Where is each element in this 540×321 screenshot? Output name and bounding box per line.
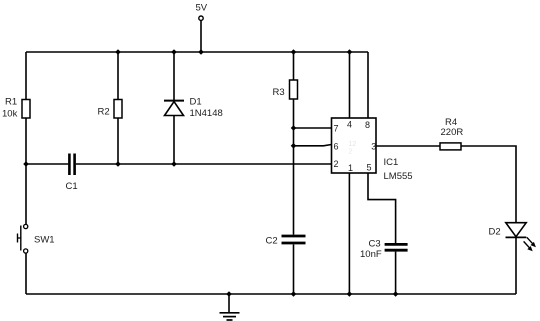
wire left column top (to R1) bbox=[25, 52, 27, 100]
svg-text:C1: C1 bbox=[66, 181, 78, 192]
svg-text:R3: R3 bbox=[273, 87, 285, 98]
node junction D1/top rail bbox=[171, 49, 177, 55]
resistor R2 bbox=[98, 100, 123, 119]
wire C2 bottom bbox=[293, 245, 295, 295]
svg-text:12: 12 bbox=[349, 141, 357, 148]
resistor R3 bbox=[273, 80, 298, 99]
svg-text:R4: R4 bbox=[445, 117, 457, 128]
node junction ground/bottom rail bbox=[226, 291, 232, 297]
wire D1 bottom bbox=[173, 116, 175, 165]
terminal 5V bbox=[196, 3, 208, 21]
svg-text:4: 4 bbox=[347, 120, 352, 130]
svg-text:D1: D1 bbox=[190, 97, 202, 108]
pin 3 number bbox=[371, 141, 376, 151]
wire R3 top bbox=[293, 52, 295, 80]
wire R1 bottom to mid rail bbox=[25, 118, 27, 164]
wire mid rail left segment bbox=[26, 163, 68, 165]
svg-text:C3: C3 bbox=[369, 238, 381, 249]
node junction pin4/top rail bbox=[347, 49, 353, 55]
ground bbox=[220, 294, 240, 320]
pin 6 number bbox=[334, 141, 339, 151]
node junction R3/pin7 bbox=[291, 125, 297, 131]
wire to pin 7 bbox=[294, 127, 332, 129]
svg-text:D2: D2 bbox=[489, 227, 501, 238]
wire mid rail right segment (to IC pin 2) bbox=[76, 163, 332, 165]
node junction left/mid rail bbox=[23, 161, 29, 167]
node junction C2/bottom rail bbox=[291, 291, 297, 297]
svg-text:R2: R2 bbox=[98, 107, 110, 118]
pin 5 number bbox=[367, 162, 372, 172]
pin 1 number bbox=[348, 163, 353, 173]
wire LED to bottom rail bbox=[515, 238, 517, 295]
svg-text:1N4148: 1N4148 bbox=[190, 108, 223, 119]
svg-text:1: 1 bbox=[348, 163, 353, 173]
svg-text:10k: 10k bbox=[2, 108, 18, 119]
pin 8 number bbox=[365, 120, 370, 130]
switch SW1 bbox=[18, 224, 55, 253]
capacitor C3 bbox=[360, 238, 408, 260]
wire pin 3 to R4 bbox=[376, 145, 440, 147]
wire C3 bottom bbox=[395, 252, 397, 294]
svg-text:10nF: 10nF bbox=[360, 249, 382, 260]
wire R4 to LED bbox=[461, 146, 516, 222]
svg-text:2: 2 bbox=[349, 149, 353, 156]
wire pin 5 to C3 bbox=[368, 173, 396, 243]
wire to pin 6 bbox=[294, 145, 332, 146]
svg-text:2: 2 bbox=[334, 159, 339, 169]
capacitor C2 bbox=[266, 235, 306, 246]
wire bottom rail bbox=[26, 293, 516, 295]
svg-text:SW1: SW1 bbox=[34, 235, 55, 246]
pin 2 number bbox=[334, 159, 339, 169]
svg-text:5: 5 bbox=[367, 162, 372, 172]
svg-text:C2: C2 bbox=[266, 235, 278, 246]
wire R3 bottom down to C2 bbox=[293, 99, 295, 235]
capacitor C1 bbox=[66, 154, 78, 193]
pin 7 number bbox=[334, 123, 339, 133]
svg-text:220R: 220R bbox=[441, 127, 464, 138]
pin 4 number bbox=[347, 120, 352, 130]
node junction pin1/bottom rail bbox=[347, 291, 353, 297]
wire pin 8 to top rail bbox=[367, 52, 369, 118]
node junction D1/mid rail bbox=[171, 161, 177, 167]
svg-text:3: 3 bbox=[371, 141, 376, 151]
wire pin 1 to bottom rail bbox=[348, 173, 350, 294]
svg-text:IC1: IC1 bbox=[384, 157, 399, 168]
wire switch to bottom rail bbox=[25, 253, 27, 294]
node junction R3/pin6 bbox=[291, 143, 297, 149]
wire R2 bottom bbox=[117, 118, 119, 164]
resistor R4 bbox=[440, 117, 463, 150]
svg-text:R1: R1 bbox=[5, 96, 17, 107]
diode D1 bbox=[164, 97, 223, 120]
wire top rail bbox=[26, 51, 368, 53]
op-amp U1 IC1 LM555 body bbox=[332, 118, 413, 182]
svg-text:7: 7 bbox=[334, 123, 339, 133]
resistor R1 bbox=[2, 96, 30, 119]
svg-text:8: 8 bbox=[365, 120, 370, 130]
wire R2 top bbox=[117, 52, 119, 100]
node junction R3/top rail bbox=[291, 49, 297, 55]
node junction C3/bottom rail bbox=[393, 291, 399, 297]
svg-text:6: 6 bbox=[334, 141, 339, 151]
node junction R2/top rail bbox=[115, 49, 121, 55]
wire pin 4 to top rail bbox=[349, 52, 351, 118]
LED D2 bbox=[489, 223, 536, 252]
node junction R2/mid rail bbox=[115, 161, 121, 167]
wire left column to switch bbox=[25, 164, 27, 224]
svg-text:5V: 5V bbox=[196, 3, 208, 14]
wire D1 top bbox=[173, 52, 175, 100]
wire 5V to top rail bbox=[200, 21, 202, 52]
node junction 5V/top rail bbox=[198, 49, 204, 55]
svg-text:LM555: LM555 bbox=[384, 171, 413, 182]
